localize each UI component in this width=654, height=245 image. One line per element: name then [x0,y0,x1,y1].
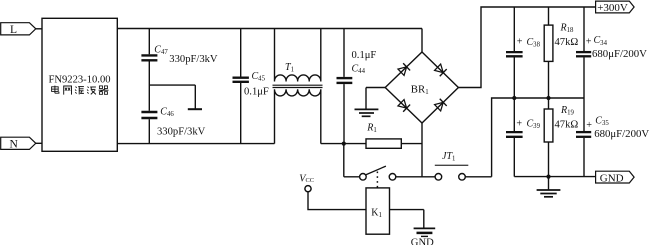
node GND [596,171,635,184]
transformer T1 (common-mode choke) [273,29,323,144]
junction (R19 bottom / ground) [546,175,550,179]
wire: bridge + output up to +300V rail [458,7,595,88]
relay coil K1 [366,188,390,234]
node +300V [596,1,635,14]
wire: bottom rail T1 to R1 junction [321,143,344,145]
svg-text:BR1: BR1 [411,84,429,97]
relay contact K1 (bypass switch) [360,166,436,180]
svg-text:C44: C44 [352,64,366,76]
svg-text:0.1μF: 0.1μF [352,50,377,61]
svg-text:C46: C46 [160,106,174,118]
svg-text:+: + [516,119,522,130]
resistor R18 [544,7,578,98]
BR1 diode lower-left [398,99,411,112]
capacitor C35 [576,98,649,177]
svg-text:GND: GND [600,172,624,184]
junction (C44 / bottom rail / R1 / relay contact) [342,142,346,146]
波 [88,87,89,88]
ground (C47/C46 midpoint, single-bar) [149,85,202,109]
capacitor C34 [576,7,647,98]
svg-text:47kΩ: 47kΩ [555,119,579,130]
svg-text:R18: R18 [560,22,575,34]
BR1 diode upper-left [398,63,411,76]
BR1 diode lower-right [434,99,447,112]
capacitor C38 [506,7,541,98]
器 [99,86,102,89]
svg-text:C35: C35 [595,116,609,128]
ground (output common earth) [537,177,561,197]
svg-text:FN9223-10.00: FN9223-10.00 [48,75,110,86]
wire: bridge top vertex drop [421,29,423,53]
svg-text:GND: GND [411,237,434,245]
svg-text:+: + [517,37,523,48]
node Vcc [299,173,366,209]
wire: middle rail [492,98,584,177]
bottom winding [274,89,320,143]
ground (bridge negative terminal) [355,88,386,117]
junction (C38/C39 at middle rail) [512,96,516,100]
电 [52,87,59,92]
node L [1,23,42,36]
capacitor C46 [141,106,205,143]
capacitor C39 [506,98,541,177]
resistor R1 [344,123,422,149]
svg-text:C34: C34 [594,35,608,47]
resistor R19 [544,98,578,177]
bridge rectifier BR1 [385,52,458,123]
svg-text:C38: C38 [527,37,541,49]
svg-text:R1: R1 [366,123,377,135]
svg-text:47kΩ: 47kΩ [555,37,579,48]
wire: top rail from filter to bridge [117,28,422,30]
ground (relay coil, GND) [390,210,436,245]
svg-text:T1: T1 [285,62,294,74]
jumper JT1 [435,151,492,180]
core [273,84,323,86]
svg-text:N: N [10,139,19,151]
svg-text:C39: C39 [527,119,541,131]
svg-text:+: + [586,36,592,47]
svg-text:+: + [586,120,592,131]
滤 [76,87,77,88]
svg-text:VCC: VCC [299,173,314,184]
wire: junction to relay contact [343,144,345,177]
BR1 diode upper-right [434,64,447,77]
网 [64,86,72,95]
wire: bridge bottom vertex to contact row [421,123,423,177]
svg-text:R19: R19 [560,105,575,117]
svg-text:330pF/3kV: 330pF/3kV [157,126,206,137]
capacitor C45 [233,29,269,144]
wire: bottom rail from filter to T1 [117,143,274,145]
svg-text:K1: K1 [371,207,382,219]
junction (R18/R19 at middle rail) [546,96,550,100]
filter label 电网滤波器 (hand-drawn strokes) [52,86,109,95]
capacitor C44 [337,29,377,144]
svg-text:330pF/3kV: 330pF/3kV [169,54,218,65]
capacitor C47 [141,29,218,111]
svg-text:0.1μF: 0.1μF [244,87,269,98]
top winding [274,29,320,82]
svg-text:C45: C45 [252,71,266,83]
wire: bottom output rail [514,176,595,178]
node N [1,137,42,150]
dotted link contact to coil [376,172,378,189]
svg-text:680μF/200V: 680μF/200V [594,128,649,140]
svg-text:L: L [10,24,17,36]
svg-text:JT1: JT1 [442,151,455,163]
svg-text:680μF/200V: 680μF/200V [592,48,647,60]
svg-text:C47: C47 [154,44,168,56]
EMI filter FN9223-10.00 [42,18,117,151]
svg-text:+300V: +300V [597,2,628,14]
